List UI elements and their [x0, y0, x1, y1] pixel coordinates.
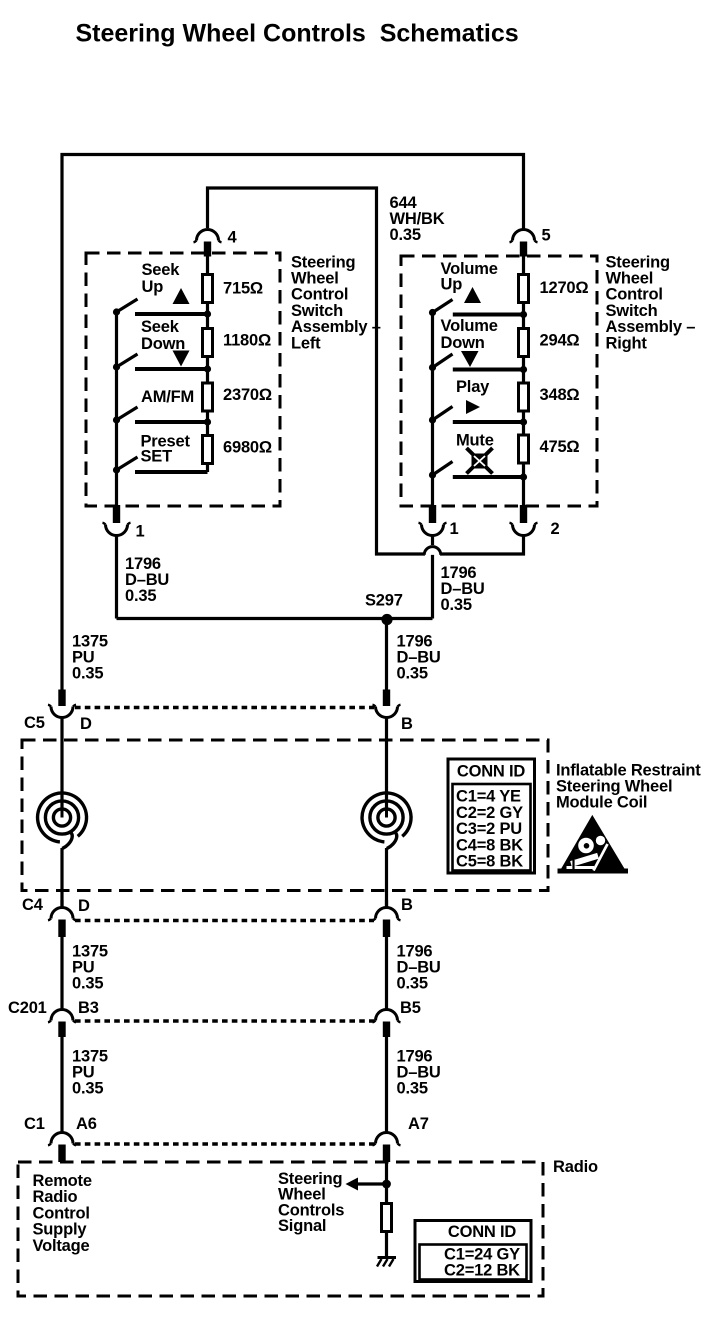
label pin B3 — [78, 999, 99, 1017]
icon volume up arrow — [464, 287, 481, 303]
label pin A7 — [408, 1115, 429, 1133]
label pin B upper — [401, 715, 413, 733]
conn id table coil — [448, 759, 535, 873]
label 1270 ohm — [540, 279, 589, 297]
pin number 1 right — [450, 520, 459, 538]
wire to ground — [385, 1233, 388, 1258]
connector C1 dotted line — [75, 1142, 374, 1145]
wire 644 right vertical to pin 5 — [522, 153, 525, 229]
pin 5 connector — [510, 230, 538, 275]
wire 1375 PU left vertical — [60, 153, 63, 690]
wire left switch bus — [115, 312, 118, 507]
pin 1 left connector — [103, 505, 131, 619]
pin 2 connector — [510, 505, 538, 556]
svg-text:C4: C4 — [22, 896, 44, 914]
node junction R1 — [520, 311, 527, 318]
svg-text:4: 4 — [228, 229, 238, 247]
label C5 — [24, 714, 45, 732]
svg-text:Steering Wheel Controls Schem: Steering Wheel Controls Schematics — [76, 20, 519, 48]
label 348 ohm — [540, 386, 580, 404]
svg-text:Play: Play — [456, 378, 490, 396]
wire S297 horizontal — [117, 617, 433, 620]
wire signal arrow — [346, 1178, 387, 1191]
node junction L1 — [204, 310, 211, 317]
svg-text:A6: A6 — [76, 1115, 97, 1133]
svg-text:C2=2 GY: C2=2 GY — [456, 804, 523, 822]
label 715 ohm — [223, 280, 263, 298]
wire tap seek up — [135, 312, 208, 316]
wire 644 top horizontal — [61, 153, 526, 156]
label Volume Up — [441, 260, 498, 294]
svg-text:Down: Down — [441, 334, 485, 352]
connector C4 dotted line — [75, 919, 374, 922]
svg-text:C1=4 YE: C1=4 YE — [456, 788, 521, 806]
svg-text:0.35: 0.35 — [390, 226, 421, 244]
label 1375 PU 0.35 upper — [72, 633, 108, 683]
svg-text:Module Coil: Module Coil — [556, 794, 647, 812]
svg-text:Signal: Signal — [278, 1217, 326, 1235]
label inflatable restraint module coil — [556, 762, 701, 812]
label Seek Up — [142, 261, 181, 296]
resistor radio load — [382, 1204, 392, 1232]
wire chain R1 — [522, 304, 525, 329]
label Radio — [553, 1158, 598, 1176]
label pin D lower — [78, 897, 90, 915]
pin number 4 — [228, 229, 238, 247]
label steering wheel controls signal — [278, 1170, 344, 1235]
wire right switch bus — [431, 312, 434, 507]
connector C1 pin A6 — [48, 1133, 76, 1162]
wire tap seek down — [135, 367, 208, 371]
svg-text:D: D — [78, 897, 90, 915]
svg-text:Volume: Volume — [441, 317, 498, 335]
svg-text:Mute: Mute — [456, 432, 494, 450]
svg-text:B5: B5 — [400, 999, 421, 1017]
label AM/FM — [141, 388, 194, 406]
svg-text:0.35: 0.35 — [125, 587, 156, 605]
svg-text:C5: C5 — [24, 714, 45, 732]
wire pin4 top horizontal — [206, 186, 378, 189]
svg-text:0.35: 0.35 — [72, 1080, 103, 1098]
svg-text:0.35: 0.35 — [397, 665, 428, 683]
label C4 — [22, 896, 44, 914]
svg-text:715Ω: 715Ω — [223, 280, 263, 298]
label 294 ohm — [540, 332, 580, 350]
svg-text:Right: Right — [606, 334, 648, 352]
svg-text:Voltage: Voltage — [33, 1237, 90, 1255]
svg-text:Radio: Radio — [553, 1158, 598, 1176]
svg-text:2370Ω: 2370Ω — [223, 386, 272, 404]
switch Volume Down — [429, 354, 453, 371]
svg-text:S297: S297 — [365, 592, 403, 610]
node radio signal junction — [382, 1180, 391, 1189]
wire A7 inside radio — [385, 1162, 388, 1204]
conn id table radio — [415, 1221, 531, 1282]
svg-text:C201: C201 — [8, 999, 47, 1017]
icon play arrow — [466, 400, 480, 414]
label assembly right — [606, 253, 696, 352]
svg-text:294Ω: 294Ω — [540, 332, 580, 350]
switch Seek Down — [113, 354, 138, 371]
wire tap volume up — [453, 313, 524, 317]
node junction L3 — [204, 418, 211, 425]
label pin A6 — [76, 1115, 97, 1133]
svg-text:SET: SET — [141, 448, 173, 466]
svg-text:B: B — [401, 715, 413, 733]
svg-text:D: D — [80, 715, 92, 733]
pin number 5 — [542, 227, 551, 245]
svg-text:C3=2 PU: C3=2 PU — [456, 820, 522, 838]
svg-text:0.35: 0.35 — [441, 596, 472, 614]
wire tap preset set — [135, 470, 208, 474]
svg-text:0.35: 0.35 — [397, 1080, 428, 1098]
label 1180 ohm — [223, 332, 271, 350]
svg-text:Up: Up — [142, 278, 164, 296]
switch Volume Up — [429, 300, 453, 317]
label 1375 PU 0.35 lower — [72, 1048, 108, 1098]
label pin B lower — [401, 896, 413, 914]
node junction L2 — [204, 365, 211, 372]
wire chain R2 — [522, 358, 525, 383]
svg-text:1270Ω: 1270Ω — [540, 279, 589, 297]
icon mute speaker — [467, 448, 493, 474]
connector C201 pin B3 — [48, 1010, 76, 1133]
connector C4 pin B — [373, 900, 401, 1010]
wire chain L1 — [206, 304, 209, 329]
resistor R1270 — [519, 275, 529, 303]
svg-text:Up: Up — [441, 276, 463, 294]
connector C201 pin B5 — [373, 1010, 401, 1133]
coil right spiral — [362, 793, 411, 908]
svg-text:0.35: 0.35 — [397, 975, 428, 993]
connector C201 dotted line — [75, 1019, 374, 1022]
label pin D upper — [80, 715, 92, 733]
switch Seek Up — [113, 299, 138, 316]
icon seek down arrow — [173, 351, 190, 367]
wire mid vertical — [375, 187, 378, 556]
connector C5 pin D — [48, 690, 76, 810]
label Play — [456, 378, 490, 396]
label Mute — [456, 432, 494, 450]
label S297 — [365, 592, 403, 610]
connector C5 pin B — [373, 690, 401, 810]
svg-text:0.35: 0.35 — [72, 975, 103, 993]
radio box — [18, 1162, 543, 1296]
pin 4 connector — [194, 187, 222, 275]
coil left spiral — [38, 793, 87, 908]
svg-text:Seek: Seek — [141, 318, 180, 336]
svg-text:CONN ID: CONN ID — [448, 1223, 517, 1241]
svg-text:1: 1 — [136, 523, 145, 541]
svg-text:Seek: Seek — [142, 261, 181, 279]
wire tap am/fm — [135, 420, 208, 424]
splice S297 — [381, 614, 392, 625]
label C1 — [24, 1115, 45, 1133]
label 475 ohm — [540, 438, 580, 456]
wire tap volume down — [453, 368, 524, 372]
label 1796 D-BU 0.35 mid — [397, 943, 441, 993]
svg-text:2: 2 — [551, 520, 560, 538]
svg-text:B3: B3 — [78, 999, 99, 1017]
label 2370 ohm — [223, 386, 272, 404]
label 1796 D-BU 0.35 pin1 left — [125, 555, 169, 605]
wire chain L4 to tap — [206, 465, 209, 472]
resistor R6980 — [203, 436, 213, 464]
svg-text:C2=12 BK: C2=12 BK — [444, 1262, 520, 1280]
wire tap play — [453, 420, 524, 424]
inflatable restraint coil box — [22, 740, 548, 891]
resistor R1180 — [203, 329, 213, 357]
wire chain L3 — [206, 413, 209, 436]
svg-text:C4=8 BK: C4=8 BK — [456, 836, 523, 854]
switch AM/FM — [113, 407, 138, 424]
svg-text:5: 5 — [542, 227, 551, 245]
label 6980 ohm — [223, 439, 272, 457]
title: Steering Wheel Controls Schematics — [76, 20, 519, 48]
label wire 644 WH/BK 0.35 — [390, 194, 445, 244]
svg-text:C5=8 BK: C5=8 BK — [456, 853, 523, 871]
svg-text:A7: A7 — [408, 1115, 429, 1133]
svg-text:6980Ω: 6980Ω — [223, 439, 272, 457]
svg-text:475Ω: 475Ω — [540, 438, 580, 456]
steering wheel control switch assembly left box — [86, 253, 280, 506]
wire chain R3 — [522, 413, 525, 436]
resistor R348 — [519, 383, 529, 411]
label C201 — [8, 999, 47, 1017]
wire 1796 below S297 — [385, 620, 388, 691]
label assembly left — [291, 253, 381, 352]
svg-text:0.35: 0.35 — [72, 665, 103, 683]
label Preset SET — [141, 433, 191, 466]
connector C1 pin A7 — [373, 1133, 401, 1162]
label 1375 PU 0.35 mid — [72, 943, 108, 993]
wire chain L2 — [206, 358, 209, 383]
switch Play — [429, 407, 453, 424]
pin 1 right connector — [419, 505, 447, 619]
label 1796 D-BU 0.35 pin1 right — [441, 564, 485, 614]
svg-text:348Ω: 348Ω — [540, 386, 580, 404]
icon airbag warning triangle — [558, 815, 629, 874]
node junction R4 — [520, 473, 527, 480]
svg-text:AM/FM: AM/FM — [141, 388, 194, 406]
svg-text:C1: C1 — [24, 1115, 45, 1133]
label 1796 D-BU 0.35 below S297 — [397, 633, 441, 683]
node junction R3 — [520, 418, 527, 425]
wire pin4 to pin2 bottom horizontal — [375, 547, 525, 555]
pin number 2 — [551, 520, 560, 538]
resistor R294 — [519, 329, 529, 357]
resistor R2370 — [203, 383, 213, 411]
ground — [377, 1258, 396, 1267]
label 1796 D-BU 0.35 lower — [397, 1048, 441, 1098]
svg-text:1180Ω: 1180Ω — [223, 332, 271, 350]
pin number 1 left — [136, 523, 145, 541]
svg-text:CONN ID: CONN ID — [457, 763, 526, 781]
label remote radio control supply voltage — [33, 1172, 92, 1255]
switch Mute — [429, 462, 453, 479]
node junction R2 — [520, 366, 527, 373]
wire chain R4 to pin 2 — [522, 465, 525, 507]
resistor R475 — [519, 435, 529, 463]
svg-text:B: B — [401, 896, 413, 914]
icon volume down arrow — [461, 351, 479, 367]
label Seek Down — [141, 318, 185, 353]
label pin B5 — [400, 999, 421, 1017]
resistor R715 — [203, 275, 213, 303]
svg-text:1: 1 — [450, 520, 459, 538]
connector C5 dotted line — [75, 706, 374, 709]
label Volume Down — [441, 317, 498, 352]
switch Preset SET — [113, 457, 138, 474]
connector C4 pin D — [48, 900, 76, 1010]
wire tap mute — [453, 475, 524, 479]
svg-text:Left: Left — [291, 334, 321, 352]
icon seek up arrow — [173, 288, 190, 304]
steering wheel control switch assembly right box — [401, 256, 597, 506]
